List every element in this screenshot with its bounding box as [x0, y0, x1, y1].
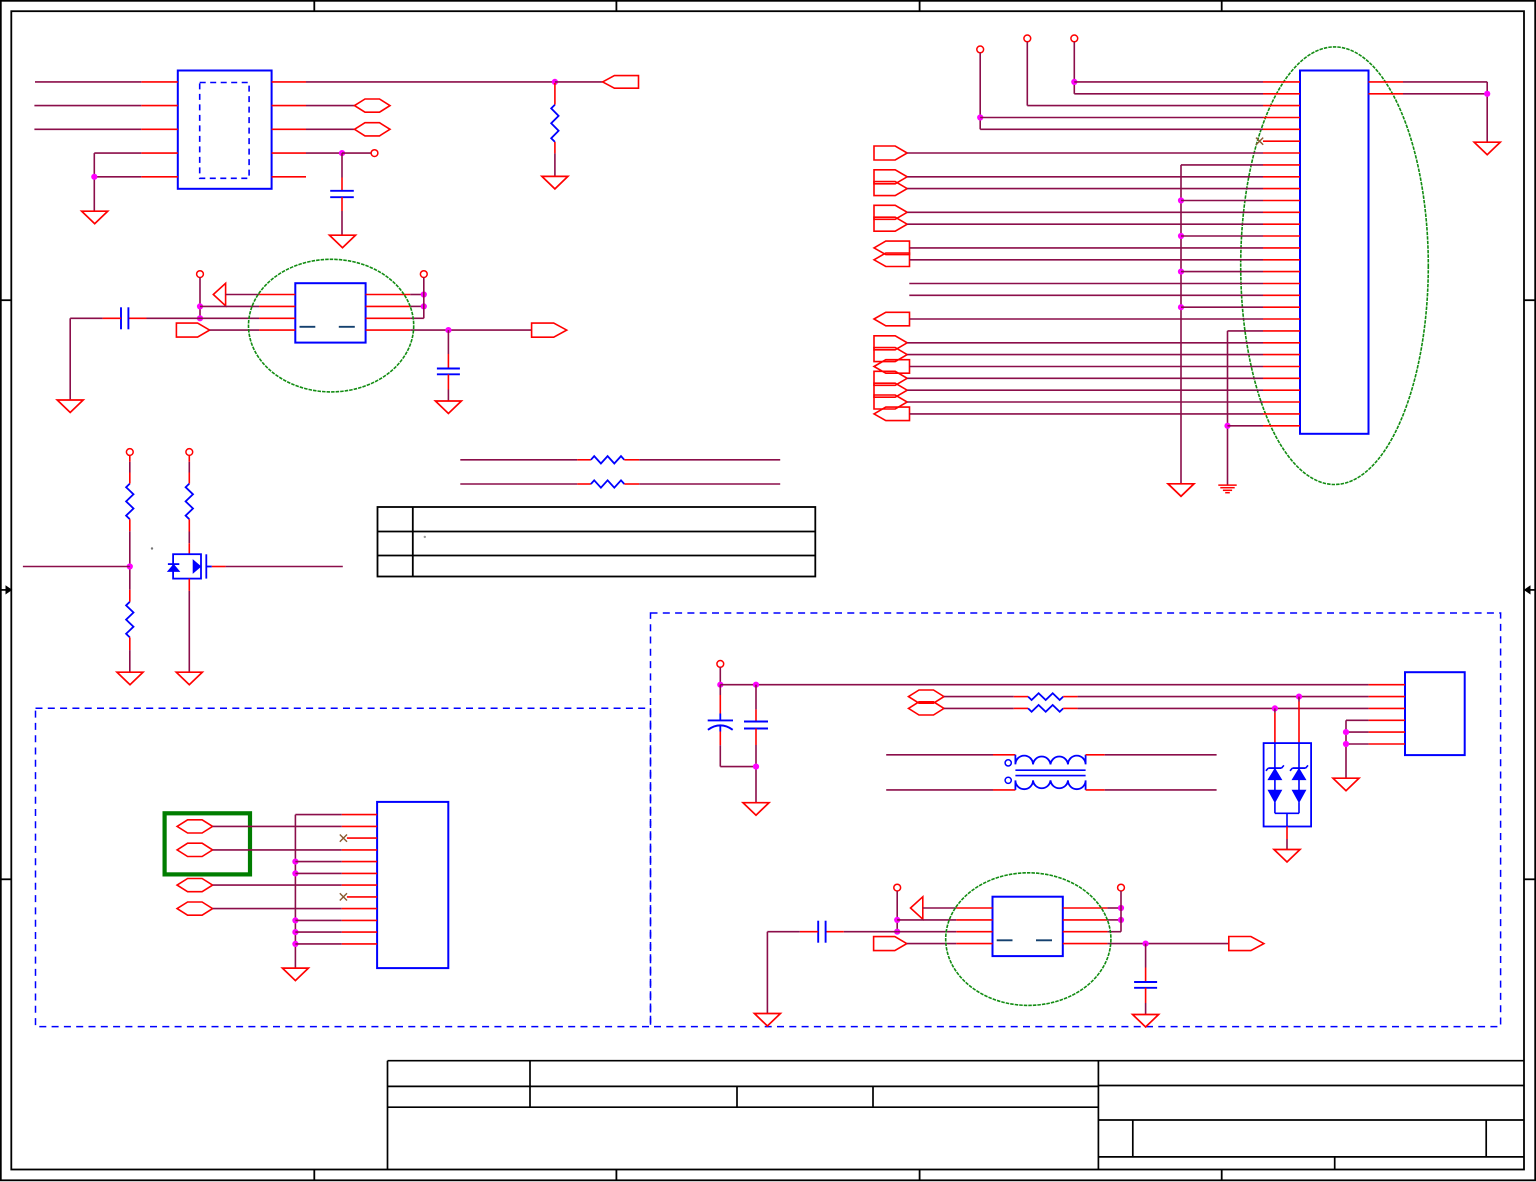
wire pin14 [1178, 233, 1184, 239]
wire + series resistor pin3 [944, 707, 1014, 709]
frame zone ticks bottom [313, 1170, 315, 1181]
ground [82, 211, 108, 224]
wire vertical from circle [199, 278, 201, 319]
connector J1 box [1300, 71, 1369, 434]
junction + wire pin11 [292, 929, 298, 935]
transformer phase dots [1005, 760, 1011, 766]
no-connect circle [371, 150, 378, 157]
green highlight ellipse [946, 873, 1111, 1006]
port pin25 left-pointing [874, 360, 910, 374]
wire pin19 bare [909, 294, 1263, 296]
capacitor C2 [755, 685, 757, 710]
IC U1 top-left [178, 71, 272, 189]
port hex U1 pin2 [306, 105, 355, 107]
resistor divider1 lower [129, 590, 131, 602]
output port right [532, 323, 567, 337]
port pin28 [874, 395, 907, 409]
wire pin20 [1178, 304, 1184, 310]
IC U2 bottom-left [377, 802, 448, 968]
wire right pin2 [1403, 93, 1487, 95]
port pin13 [874, 217, 907, 231]
port left-pointing top [603, 76, 639, 89]
junction [1272, 705, 1278, 711]
port pin24 [874, 348, 907, 362]
junction [894, 917, 900, 923]
port into PHY pin4 [176, 323, 209, 337]
connector left pin stubs [1263, 81, 1300, 83]
no-connect circle right [1118, 884, 1125, 891]
earth ground V2 [1218, 484, 1236, 486]
no-connect circle net1 [977, 46, 984, 53]
port hex U2 pin2 [177, 820, 213, 833]
polarized capacitor [719, 685, 721, 695]
U1 left pin stubs [141, 81, 178, 83]
wire net to U1 pin 2 [34, 105, 141, 107]
mosfet source wire to ground [188, 579, 190, 591]
main supply wire [720, 684, 1368, 686]
junction [1296, 694, 1302, 700]
port pin29 left-pointing [874, 407, 910, 421]
ground [754, 1014, 780, 1027]
input arrow [213, 283, 225, 306]
revision table [378, 507, 816, 577]
wire net2 vertical [1026, 42, 1028, 106]
connector right pin stubs [1369, 81, 1404, 83]
wire pin2 [200, 305, 259, 307]
input arrow [911, 897, 923, 919]
coupling capacitor [147, 317, 201, 319]
transformer bottom winding [886, 789, 993, 791]
wire pin30 [1224, 423, 1230, 429]
no-connect circle divider1 [126, 449, 133, 456]
no-connect circle net3 [1071, 35, 1078, 42]
capacitor to ground [1145, 944, 1147, 968]
port hex F pin3 [909, 702, 945, 715]
frame zone ticks left [1, 299, 12, 301]
connector J1 green ellipse [1241, 47, 1429, 485]
no-connect circle divider2 [186, 449, 193, 456]
IC U3 right [1405, 672, 1465, 755]
capacitor to ground [447, 330, 449, 354]
green highlight rectangle [165, 813, 250, 874]
U2 pin stubs [342, 814, 377, 816]
ground F1 [743, 803, 769, 816]
ground [117, 672, 143, 685]
wire pin3 [897, 931, 956, 933]
capacitor C1 [341, 153, 343, 177]
series resistor wire1 [460, 459, 577, 461]
vertical bus V2 [1227, 331, 1229, 485]
port hex U1 pin3 [306, 128, 355, 130]
ground V1 [1168, 484, 1194, 497]
U3 pin stubs [1369, 684, 1405, 686]
PHY IC box [295, 283, 365, 342]
junction [753, 682, 759, 688]
port pin16 left-pointing [874, 253, 910, 267]
no-connect circle net2 [1024, 35, 1031, 42]
power stem [719, 667, 721, 684]
wire net1 vertical [979, 53, 981, 130]
PHY box internal dashes [997, 939, 1013, 941]
right wires to vertical [410, 294, 424, 296]
wire below resistor [554, 142, 556, 154]
junction + wire pin12 [292, 941, 298, 947]
vertical right [1120, 891, 1122, 932]
PHY IC box [993, 897, 1063, 956]
ground right [1474, 142, 1500, 155]
junction [1143, 941, 1149, 947]
PHY left pin stubs [259, 294, 295, 296]
junction + wire pin5 [292, 859, 298, 865]
U3 ground pins wires [1346, 719, 1369, 721]
ground E [282, 968, 308, 981]
ground [542, 176, 568, 189]
U1 right pin stubs [272, 81, 306, 83]
right wires to vertical [1107, 907, 1121, 909]
junction + wire pin6 [292, 870, 298, 876]
port hex U2 pin4 [177, 843, 213, 856]
TVS stems [1298, 697, 1300, 702]
no-ERC cross U2 pin8 [340, 893, 347, 900]
wire pin3 right [410, 317, 424, 319]
no-ERC cross pin6 [1256, 138, 1263, 145]
coupling capacitor [844, 931, 898, 933]
wire pin1 [295, 814, 341, 816]
no-connect circle left [894, 884, 901, 891]
wire vertical to ground [93, 153, 95, 211]
vertical bus E [294, 815, 296, 969]
wire pin3 [1027, 105, 1263, 107]
port pin15 left-pointing [874, 241, 910, 255]
port hex U2 pin9 [177, 902, 213, 915]
wire pin22 [1228, 330, 1264, 332]
transformer T1 [886, 754, 993, 756]
wire left stub [23, 566, 130, 568]
vertical right [423, 278, 425, 319]
junction [753, 764, 759, 770]
port pin12 [874, 205, 907, 219]
no-ERC cross U2 pin3 [340, 835, 347, 842]
PHY right pin stubs [1063, 907, 1108, 909]
PHY right pin stubs [366, 294, 411, 296]
no-connect circle F [717, 661, 724, 668]
junction + wire pin10 [292, 917, 298, 923]
PHY box internal dashes [300, 326, 316, 328]
series resistor wire2 [460, 483, 577, 485]
text remnant dots [151, 547, 153, 549]
wire U1 pin1 to port [306, 81, 555, 83]
wire net to U1 pin 1 [35, 81, 141, 83]
port pin10 [874, 182, 907, 196]
junction [127, 563, 133, 569]
mosfet gate wire [212, 566, 226, 568]
resistor divider2 [188, 455, 190, 461]
wire pin3 right [1107, 931, 1121, 933]
TVS diode array D1 [1264, 743, 1312, 826]
wire pin2 [1074, 93, 1263, 95]
no-connect circle right [420, 271, 427, 278]
port pin7 [874, 146, 907, 160]
output port right [1229, 937, 1264, 951]
junction [717, 682, 723, 688]
transformer core [1015, 769, 1085, 771]
ground [176, 672, 202, 685]
PHY left pin stubs [956, 907, 992, 909]
port into PHY pin4 [874, 937, 907, 951]
resistor divider1 upper [129, 455, 131, 461]
wire pin1 [1074, 81, 1263, 83]
ground [57, 400, 83, 413]
junction [552, 79, 558, 85]
green highlight ellipse [249, 259, 414, 392]
frame center arrow right [1530, 589, 1536, 591]
port pin26 [874, 371, 907, 385]
ground [435, 401, 461, 414]
frame zone ticks right [1524, 299, 1535, 301]
no-connect circle left [197, 271, 204, 278]
wire pin5 [980, 128, 1263, 130]
frame center arrow left [1, 589, 7, 591]
port pin9 [874, 170, 907, 184]
junction [197, 303, 203, 309]
wire pin18 bare [909, 283, 1263, 285]
port pin21 left-pointing [874, 312, 910, 326]
wire right pin1 [1403, 81, 1487, 83]
wire down to ground [69, 318, 71, 400]
wire down to ground [766, 932, 768, 1014]
wire net to U1 pin 3 [34, 128, 141, 130]
ground [330, 235, 356, 248]
wire pin4 right to port [410, 329, 531, 331]
wire pin11 [1178, 197, 1184, 203]
ground [1133, 1015, 1159, 1028]
junction [894, 929, 900, 935]
wire + series resistor pin2 [944, 696, 1014, 698]
TVS ground stem [1286, 827, 1288, 840]
wire pin3 [200, 317, 259, 319]
resistor R pull top [554, 83, 556, 105]
junction [91, 174, 97, 180]
vertical bus V1 [1180, 165, 1182, 484]
wire pin4 [980, 117, 1263, 119]
mosfet Q1 [173, 554, 201, 578]
wire right vertical [1486, 82, 1488, 142]
frame zone ticks top [313, 1, 315, 11]
ground U3 [1333, 778, 1359, 791]
wire pin8 [1181, 164, 1263, 166]
junction [339, 150, 345, 156]
junction [1484, 91, 1490, 97]
junction [445, 327, 451, 333]
port hex U2 pin7 [177, 879, 213, 892]
title block [388, 1060, 1525, 1062]
dashed block boundary right [651, 613, 1501, 1027]
wire net3 vertical [1073, 42, 1075, 94]
wire pin2 [897, 919, 956, 921]
wire U1 pin 5 [94, 176, 141, 178]
wire pin4 right to port [1107, 943, 1228, 945]
port pin27 [874, 383, 907, 397]
wire net U1 pin 4 [94, 152, 141, 154]
wire vertical from circle [896, 891, 898, 932]
port hex F pin2 [909, 690, 945, 703]
port pin23 [874, 336, 907, 350]
wire pin17 [1178, 269, 1184, 275]
dashed block boundary left [36, 708, 651, 1026]
junction [197, 315, 203, 321]
ground TVS [1274, 850, 1300, 863]
wire U1 pin4 right [306, 152, 342, 154]
